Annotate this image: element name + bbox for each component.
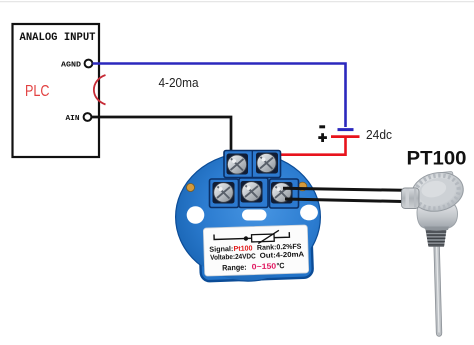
probe thread nipple (426, 230, 447, 247)
screw socket 3 (213, 182, 235, 204)
label text line 3 (222, 261, 285, 272)
terminal block row 2 center (239, 178, 268, 208)
transmitter disc overlay (176, 154, 320, 281)
current loop arc (94, 75, 106, 105)
label minus (319, 125, 325, 128)
probe head body (417, 202, 458, 231)
wire AIN to transmitter (black) (92, 117, 232, 161)
center slot (242, 210, 267, 221)
transmitter disc body (176, 154, 320, 281)
screw 1 (227, 155, 246, 174)
svg-text:24dc: 24dc (366, 127, 392, 142)
spec label (203, 225, 308, 276)
svg-text:4-20ma: 4-20ma (159, 75, 200, 90)
svg-text:Range:: Range: (222, 263, 247, 273)
label plus (318, 133, 327, 142)
mounting hole right (300, 205, 318, 221)
svg-text:0~150: 0~150 (252, 262, 278, 272)
screw socket 1 (227, 154, 249, 175)
transmitter bottom rim (199, 220, 313, 281)
probe rod (434, 243, 442, 336)
wire transmitter to probe upper (283, 188, 403, 190)
PLC box (13, 24, 100, 157)
probe head cap (408, 168, 467, 216)
terminal AGND (85, 60, 93, 68)
label text line 2 (210, 249, 304, 261)
mounting hole left (187, 206, 205, 224)
PT100 probe (402, 168, 467, 336)
terminal AIN (84, 113, 92, 121)
screw 3 (214, 183, 234, 203)
screw 5 (272, 183, 292, 203)
svg-text:AIN: AIN (66, 115, 80, 123)
screw socket 4 (241, 181, 263, 203)
svg-text:PLC: PLC (25, 83, 50, 100)
probe head cap tab (439, 171, 453, 181)
probe entry collar (402, 188, 420, 209)
label text line 1 (209, 242, 302, 254)
battery B1 positive plate (331, 135, 360, 138)
battery B1 negative plate (338, 128, 354, 131)
screw socket 2 (256, 153, 278, 174)
terminal block row 1 (224, 151, 281, 178)
svg-text:°C: °C (276, 261, 285, 270)
svg-text:PT100: PT100 (407, 149, 467, 170)
temperature transmitter module (176, 151, 320, 282)
svg-text:AGND: AGND (61, 62, 82, 70)
top edge line (0, 1, 474, 2)
gold screw left (187, 184, 195, 192)
svg-text:Out:4-20mA: Out:4-20mA (260, 249, 305, 259)
wire battery positive to transmitter (red) (270, 138, 346, 155)
wire transmitter to probe lower (285, 199, 402, 202)
screw socket 5 (271, 182, 293, 204)
gold screw right (298, 182, 307, 191)
svg-text:Voltabe:24VDC: Voltabe:24VDC (210, 251, 256, 261)
screw 2 (257, 153, 276, 172)
terminal block row 2 left (210, 179, 239, 208)
wire AGND to battery negative (blue) (93, 64, 346, 128)
thermistor symbol (214, 232, 289, 239)
screw 4 (242, 182, 262, 202)
svg-text:ANALOG INPUT: ANALOG INPUT (20, 32, 96, 44)
terminal block row 2 right (270, 179, 299, 208)
